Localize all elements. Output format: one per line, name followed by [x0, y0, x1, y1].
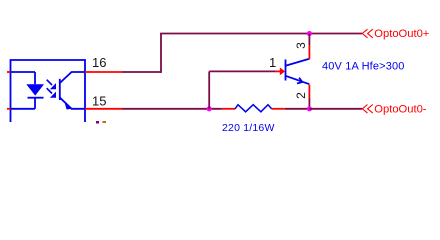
- wire pin15 to left junction: [122, 108, 222, 110]
- photo emission arrow 1: [47, 80, 56, 90]
- resistor R1 right lead: [272, 108, 285, 110]
- wire riser: [160, 34, 162, 73]
- wire emitter to bottom net: [308, 99, 310, 109]
- opto LED anode pin stub: [7, 71, 11, 73]
- svg-text:15: 15: [92, 93, 106, 108]
- svg-text:220 1/16W: 220 1/16W: [222, 122, 275, 134]
- transistor Q1: [286, 59, 310, 84]
- optocoupler U1 box: [11, 60, 86, 122]
- wire top rail to collector pin: [308, 34, 310, 46]
- junction dot top: [307, 31, 312, 36]
- wire to OptoOut0- chevron: [309, 108, 362, 110]
- wire base vertical: [208, 71, 210, 108]
- junction dot left: [207, 106, 212, 111]
- net label OptoOut0+ chevron: [362, 29, 373, 38]
- pin 1 base lead: [276, 70, 281, 72]
- net label OptoOut0- chevron: [362, 105, 373, 114]
- wire pin16 to riser: [122, 71, 161, 73]
- resistor R1 left lead: [222, 108, 235, 110]
- junction dot right: [307, 106, 312, 111]
- clipped text dot 2: [103, 121, 107, 123]
- pin 15: [85, 108, 122, 110]
- pin 16: [85, 71, 122, 73]
- svg-text:16: 16: [92, 55, 106, 70]
- clipped text dot 1: [96, 121, 99, 124]
- svg-text:OptoOut0-: OptoOut0-: [374, 103, 427, 115]
- photo emission arrow 2: [47, 88, 56, 98]
- opto LED cathode pin stub: [7, 108, 11, 110]
- pin 1 marker (red arrow at base): [280, 67, 285, 75]
- svg-text:3: 3: [294, 42, 308, 49]
- svg-text:1: 1: [269, 55, 276, 70]
- resistor R1 body: [235, 105, 272, 112]
- transistor pin 3 (collector pin): [308, 45, 310, 59]
- wire top rail: [160, 33, 362, 35]
- wire resistor to right junction: [285, 108, 310, 110]
- LED (opto emitter diode): [11, 72, 45, 109]
- opto phototransistor: [60, 72, 85, 110]
- wire base horizontal: [209, 70, 275, 72]
- svg-text:40V 1A Hfe>300: 40V 1A Hfe>300: [322, 61, 405, 73]
- svg-text:OptoOut0+: OptoOut0+: [374, 28, 429, 40]
- transistor pin 2 (emitter pin): [308, 85, 310, 99]
- svg-text:2: 2: [294, 92, 308, 99]
